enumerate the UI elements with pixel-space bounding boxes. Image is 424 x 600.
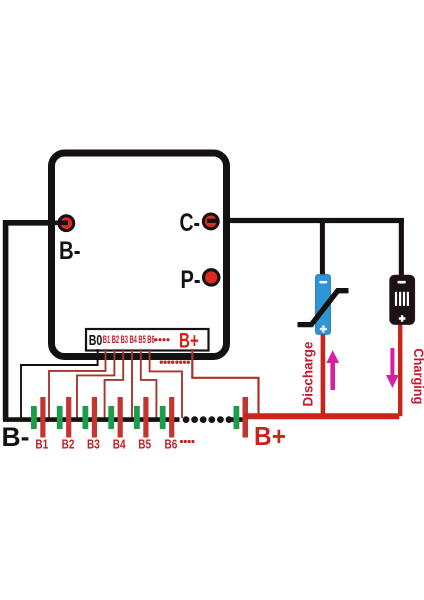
minus mark on SW1 (319, 281, 327, 284)
ellipsis dots under connector (160, 361, 190, 364)
cell B5 (134, 397, 149, 438)
wire B6 sense (150, 349, 182, 418)
svg-text:P-: P- (181, 266, 201, 294)
terminal B- (59, 216, 74, 231)
svg-text:B3: B3 (121, 334, 128, 346)
plus mark on CHG1 (399, 315, 406, 322)
svg-text:B4: B4 (113, 436, 126, 451)
wire B4 sense (131, 349, 133, 418)
label ellipsis dots (180, 440, 195, 443)
minus mark on CHG1 (397, 281, 405, 284)
svg-text:B4: B4 (130, 334, 138, 346)
svg-text:Discharge: Discharge (300, 341, 316, 406)
wire charger return (398, 323, 402, 417)
wire stub into B- terminal (50, 221, 68, 226)
svg-text:Charging: Charging (411, 348, 424, 404)
cell Bn (last) (234, 397, 249, 438)
wire B1 sense (49, 349, 106, 418)
svg-text:B-: B- (59, 237, 81, 265)
connector ellipsis dots (154, 338, 169, 341)
wire B3 sense (105, 349, 124, 418)
svg-text:B3: B3 (87, 436, 100, 451)
wire B0 sense (21, 349, 98, 418)
charger grille bars (395, 292, 409, 306)
switch blade (298, 291, 349, 325)
svg-text:B6: B6 (165, 436, 178, 451)
charger CHG1 (black) (390, 275, 415, 324)
cell B3 (83, 397, 98, 438)
svg-text:B5: B5 (138, 436, 151, 451)
cell B2 (57, 397, 71, 438)
discharge arrow (up) (326, 350, 339, 390)
svg-text:B2: B2 (62, 436, 75, 451)
svg-text:B+: B+ (179, 330, 199, 353)
svg-text:B+: B+ (254, 421, 286, 451)
cell B1 (31, 397, 46, 438)
svg-text:B2: B2 (112, 334, 119, 346)
wire to discharge switch (320, 221, 325, 278)
charging arrow (down) (386, 348, 399, 388)
svg-text:B6: B6 (147, 334, 154, 346)
cell B6 (160, 397, 175, 438)
wire B5 sense (141, 349, 157, 418)
battery string ellipsis (183, 416, 233, 423)
wire C- to loads (top horizontal) (205, 218, 404, 223)
svg-text:B1: B1 (35, 436, 48, 451)
terminal C- (203, 214, 218, 229)
discharge load SW1 (blue) (316, 275, 331, 335)
svg-text:B1: B1 (103, 334, 110, 346)
balance connector J1 (86, 329, 209, 351)
svg-text:B-: B- (2, 422, 30, 452)
B+ power bus (red) (244, 413, 399, 419)
battery string bus (black) (3, 417, 246, 422)
wire B+ tap (192, 349, 258, 414)
terminal P- (204, 270, 219, 285)
BMS board U1 (52, 153, 227, 357)
cell B4 (108, 397, 122, 438)
svg-text:B5: B5 (138, 334, 145, 346)
wire B2 sense (77, 349, 114, 418)
svg-text:C-: C- (180, 209, 201, 237)
svg-text:B0: B0 (89, 332, 103, 349)
plus mark on SW1 (320, 326, 327, 333)
wire to charger (399, 221, 404, 279)
wire discharge return (321, 334, 326, 417)
wire B- lead (left) (6, 223, 63, 420)
wire stub into C- terminal (207, 219, 217, 223)
